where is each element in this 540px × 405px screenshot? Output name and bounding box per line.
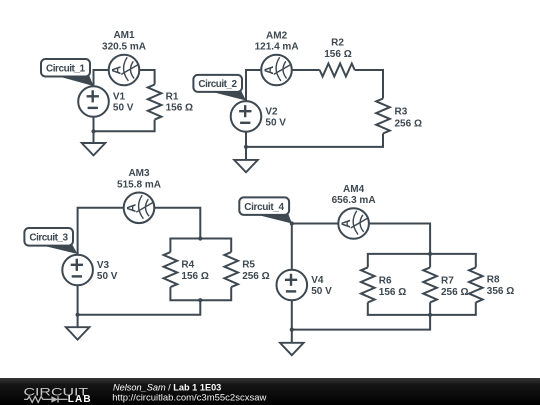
svg-text:A: A: [262, 66, 276, 75]
svg-text:AM2: AM2: [266, 31, 288, 42]
svg-text:50 V: 50 V: [265, 117, 286, 128]
svg-text:121.4 mA: 121.4 mA: [255, 42, 299, 53]
svg-text:256 Ω: 256 Ω: [395, 118, 422, 129]
svg-text:156 Ω: 156 Ω: [166, 102, 193, 113]
svg-text:R7: R7: [441, 275, 454, 286]
svg-text:320.5 mA: 320.5 mA: [102, 41, 146, 52]
svg-text:A: A: [339, 219, 353, 228]
svg-text:R5: R5: [242, 260, 255, 271]
svg-text:V2: V2: [265, 107, 278, 118]
svg-text:R6: R6: [379, 275, 392, 286]
svg-text:R4: R4: [181, 260, 194, 271]
svg-text:LAB: LAB: [68, 394, 91, 405]
svg-text:R2: R2: [331, 37, 344, 48]
svg-text:50 V: 50 V: [311, 286, 332, 297]
svg-text:156 Ω: 156 Ω: [324, 49, 351, 60]
svg-text:356 Ω: 356 Ω: [487, 286, 514, 297]
svg-text:156 Ω: 156 Ω: [181, 271, 208, 282]
svg-text:AM1: AM1: [113, 30, 135, 41]
svg-text:AM4: AM4: [343, 184, 365, 195]
svg-text:256 Ω: 256 Ω: [242, 271, 269, 282]
svg-text:V4: V4: [311, 275, 324, 286]
svg-text:Circuit_2: Circuit_2: [198, 79, 237, 90]
svg-text:515.8 mA: 515.8 mA: [117, 180, 161, 191]
svg-text:R1: R1: [166, 92, 179, 103]
svg-text:50 V: 50 V: [113, 103, 134, 114]
svg-text:156 Ω: 156 Ω: [379, 287, 406, 298]
svg-text:R8: R8: [487, 275, 500, 286]
svg-text:http://circuitlab.com/c3m55c2s: http://circuitlab.com/c3m55c2scxsaw: [112, 393, 266, 404]
svg-text:656.3 mA: 656.3 mA: [332, 195, 376, 206]
svg-text:Nelson_Sam / Lab 1 1E03: Nelson_Sam / Lab 1 1E03: [113, 382, 221, 392]
svg-text:Circuit_4: Circuit_4: [244, 202, 284, 213]
svg-text:256 Ω: 256 Ω: [441, 287, 468, 298]
svg-text:A: A: [109, 66, 123, 75]
svg-text:Circuit_3: Circuit_3: [29, 232, 68, 243]
svg-text:V3: V3: [97, 260, 110, 271]
svg-text:V1: V1: [113, 92, 126, 103]
svg-text:50 V: 50 V: [97, 271, 118, 282]
svg-text:R3: R3: [395, 107, 408, 118]
svg-text:Circuit_1: Circuit_1: [46, 63, 85, 74]
svg-text:A: A: [124, 203, 138, 212]
svg-text:AM3: AM3: [128, 168, 150, 179]
